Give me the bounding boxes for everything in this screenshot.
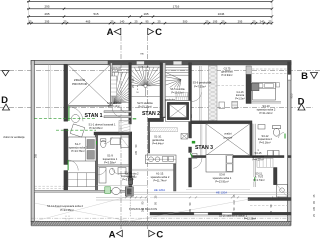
window h8 gap1 [194,213,208,215]
svg-text:P=4.44m²: P=4.44m² [152,141,163,145]
svg-text:zidovi za ventilacije: zidovi za ventilacije [3,136,25,139]
svg-text:265: 265 [35,153,38,158]
wall h8 [150,212,291,215]
svg-text:spavaća soba 1: spavaća soba 1 [69,146,88,150]
toilet STAN3 [273,126,281,129]
closet STAN1 [68,173,96,187]
svg-text:P=12.06m²: P=12.06m² [89,126,102,130]
svg-text:265: 265 [141,207,144,212]
section line C vertical [147,36,149,229]
svg-text:HE 120A: HE 120A [216,191,227,195]
svg-text:140: 140 [120,19,125,23]
washer boxes [268,151,274,157]
svg-text:garderoba: garderoba [165,98,176,101]
door green bath3 [284,134,286,139]
svg-text:295: 295 [44,5,49,9]
svg-text:S3-6 predsoblje: S3-6 predsoblje [193,81,212,85]
svg-text:295: 295 [44,12,49,16]
wardrobe cabinet STAN2 [150,128,178,132]
green dashed line 1 [34,118,96,120]
bedroom2 sill line [252,101,281,103]
bath mid wall [98,165,129,167]
bath top wall [94,132,132,135]
stair flight 1 STAN1 [111,65,129,106]
svg-text:prostor: prostor [224,135,233,139]
bedroom2 north thin wall [132,168,174,170]
svg-text:95: 95 [145,19,149,23]
svg-text:B: B [301,71,308,82]
svg-text:P=7.53m²: P=7.53m² [194,84,206,88]
wall v14 [95,135,97,191]
stair1 west wall [111,63,113,106]
svg-text:S1-11 dnevni+spavaća soba 2: S1-11 dnevni+spavaća soba 2 [47,204,84,208]
wall v11 [129,132,132,191]
section line B horizontal [0,70,320,72]
svg-text:A: A [107,27,114,38]
svg-text:465: 465 [86,19,91,23]
svg-text:P=12.38m²: P=12.38m² [244,218,256,221]
closet dashed above bed2 [252,68,287,70]
door arc bedroom1 [193,158,202,168]
wall v10 [253,124,255,177]
marker C bottom [149,230,155,236]
svg-text:HE 120A: HE 120A [154,188,165,192]
table circle STAN1 [72,115,80,123]
stair1 south line [68,104,111,106]
wall below small room [148,118,164,121]
stair3 west light wall [163,63,166,117]
svg-text:P=13.76m²: P=13.76m² [71,149,84,153]
svg-text:=1.40: =1.40 [113,71,119,73]
svg-text:D: D [1,95,8,106]
dashed line garderoba area [218,85,247,87]
v1 dashed continuation [65,216,67,222]
outer wall top [31,60,291,64]
wall h5 [192,156,285,158]
stair2 bottom line [131,95,160,97]
window top wall 1 [137,61,145,65]
stair flight 3 STAN3 [166,65,189,97]
svg-text:A1-15.: A1-15. [156,172,164,176]
v11 dashed continuation [129,192,131,216]
svg-text:515: 515 [93,12,98,16]
wall v13 [246,66,251,75]
door arc stair exit [112,108,121,117]
zracni prostor 1 X room [68,65,111,106]
door arc bath3 [279,133,285,139]
svg-text:P=5.16m²: P=5.16m² [259,140,270,144]
corridor wall h1b [104,116,131,118]
wall v16 [274,168,278,185]
svg-text:S1-9: S1-9 [107,154,113,158]
svg-text:25: 25 [110,19,114,23]
armchair STAN1 [70,124,85,137]
svg-text:S2-5 stubište: S2-5 stubište [137,101,153,105]
stair flight 2 STAN2 [132,65,161,97]
hatched duct column [209,66,218,123]
svg-text:2.08 5x28: 2.08 5x28 [111,68,121,70]
door green stan3 corridor [192,141,195,144]
svg-text:P=3.38m²: P=3.38m² [104,161,116,165]
kitchen fixtures STAN1 [96,178,148,200]
svg-text:25: 25 [63,19,67,23]
dimension lines top [27,0,273,25]
green dashed line 2 [56,129,96,131]
nightstands bed2 [252,83,260,91]
radiator [232,101,238,108]
svg-text:5x28=1.40: 5x28=1.40 [138,66,149,68]
svg-text:25: 25 [221,19,225,23]
svg-text:A: A [109,230,116,240]
svg-text:P=4.27m²: P=4.27m² [252,158,263,162]
door green stan2 [133,118,137,120]
svg-text:25: 25 [134,19,138,23]
svg-text:P=1.5m²: P=1.5m² [235,97,245,100]
svg-text:STAN 3: STAN 3 [195,145,213,151]
svg-text:P=11.74m²: P=11.74m² [153,178,166,182]
sink STAN1 [111,138,121,145]
svg-text:Pv10.13m²: Pv10.13m² [139,105,152,109]
garderoba west wall [148,122,150,153]
closet square bedroom1 [192,153,197,158]
marker C top [148,28,154,34]
door leaf green STAN1 [68,106,70,121]
svg-text:P=13.91m²: P=13.91m² [215,179,228,183]
svg-text:25: 25 [268,19,272,23]
svg-text:1716: 1716 [173,5,180,9]
wall v1 lower [64,171,68,191]
svg-text:295: 295 [45,19,50,23]
svg-text:C: C [156,230,163,240]
stair divider v3 [129,63,132,124]
svg-text:spavaća soba 2: spavaća soba 2 [151,175,170,179]
door arc STAN1 entry [69,107,84,122]
svg-text:195: 195 [270,210,273,215]
svg-text:STAN 2: STAN 2 [142,111,160,117]
wall v15 [174,164,177,191]
elevator shaft [166,101,191,122]
window top wall 2 [173,61,181,65]
svg-text:25: 25 [205,19,209,23]
door green v14 [96,141,98,145]
door green v10 [254,177,256,181]
svg-text:P=24.36m²: P=24.36m² [60,208,73,212]
wall v1 mid [64,129,68,165]
door arc garderoba2 [98,169,106,175]
balcony lines [34,189,291,221]
wall v9 [250,124,252,156]
svg-text:240: 240 [260,19,265,23]
svg-text:PROSTOR: PROSTOR [72,82,88,86]
svg-text:S1-1 dnevni boravak 1: S1-1 dnevni boravak 1 [89,122,116,126]
svg-text:P=4.94m²: P=4.94m² [222,74,233,77]
svg-text:195: 195 [213,19,218,23]
garderoba thin wall v7 [199,66,201,121]
door arc bath2 [112,168,119,175]
svg-text:90,5: 90,5 [291,93,294,98]
terrace wall h6 [34,190,130,192]
window h8 gap2 [222,213,232,215]
corridor wall h1a [104,111,131,113]
window right wall [288,75,291,81]
door arc bath1 [104,137,112,143]
svg-text:S1-10.: S1-10. [154,135,162,139]
svg-text:P=11.22m²: P=11.22m² [259,111,272,115]
bed STAN3 bedroom1 [206,155,233,172]
loggia dashed row [250,205,288,207]
svg-text:S1-7.: S1-7. [75,142,82,146]
shaft center lines [48,65,50,120]
svg-text:195: 195 [143,12,148,16]
sink STAN3 [258,125,265,130]
outer wall right [288,62,291,222]
wall v1 upper [64,64,68,121]
marker B left [2,71,9,76]
bath2 fixtures [99,168,106,184]
stan3 corridor thin wall [199,124,201,155]
toilet STAN1 [101,140,106,147]
small table stan3 [219,102,225,109]
shower STAN1 [121,137,129,148]
small room labels [3,53,276,221]
svg-text:1046: 1046 [218,12,225,16]
outer wall left [31,60,34,221]
svg-text:S3-8: S3-8 [219,173,225,177]
svg-text:300: 300 [183,19,188,23]
svg-text:kupaonica 1: kupaonica 1 [103,157,118,161]
svg-text:195: 195 [313,206,316,211]
dashed rows above terrace [34,185,67,187]
zracni prostor 2 X room [206,124,250,156]
svg-text:P=2.2m²: P=2.2m² [127,176,136,179]
stair2 east wall v5 [160,63,163,118]
svg-text:295: 295 [238,19,243,23]
section line A vertical [120,36,122,229]
svg-text:STAN 1: STAN 1 [84,113,102,119]
wall h2 stan3 [192,121,253,124]
dashdot line above parapet [32,217,292,219]
section line D horizontal [0,107,313,109]
svg-text:195: 195 [135,150,138,155]
svg-text:C: C [155,27,162,38]
wall h7 [248,198,291,201]
kitchen STAN2 [146,155,177,164]
svg-text:P=10.13m²: P=10.13m² [108,105,120,108]
door green bedroom1 [190,153,192,157]
svg-text:25: 25 [252,19,256,23]
vertical dimension stacks [35,78,317,217]
stan2 south wall [160,115,192,118]
bed STAN1 [68,137,96,161]
balcony parapet bottom band [31,221,291,226]
door arc STAN3 entry [192,92,202,101]
svg-text:210: 210 [233,200,236,205]
hatched wardrobe corridor [119,121,130,133]
svg-text:P=1.74m²: P=1.74m² [253,178,264,182]
svg-text:25: 25 [157,19,161,23]
small X box [181,134,188,140]
wall v6 [189,63,192,138]
hatch cabinet above elevator [176,93,188,101]
svg-text:265: 265 [189,208,192,213]
garderoba hanger lines [257,158,273,167]
bed STAN3 bedroom2 [253,83,276,101]
svg-text:25: 25 [28,19,32,23]
shower TUS [277,185,288,198]
door arc v1 lower [68,160,79,171]
